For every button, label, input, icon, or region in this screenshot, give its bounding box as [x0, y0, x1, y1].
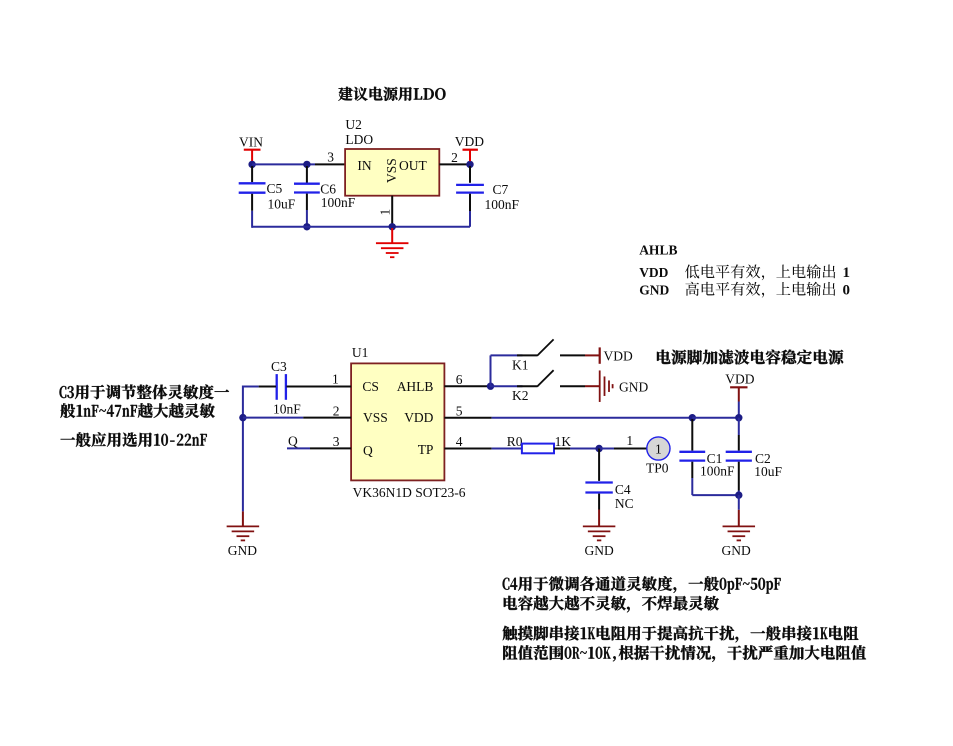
testpoint TP0 [646, 437, 670, 476]
node ground junction [389, 223, 396, 230]
wire C3 left [243, 386, 259, 388]
note VDD line [639, 264, 850, 281]
wire R0 to junction [554, 448, 599, 450]
node C6 bottom junction [303, 223, 310, 230]
svg-text:K1: K1 [512, 357, 529, 372]
pin 5 label [456, 404, 463, 419]
svg-text:VDD: VDD [639, 265, 668, 280]
svg-text:U2: U2 [345, 117, 362, 132]
node VIN junction [248, 161, 255, 168]
svg-text:AHLB: AHLB [639, 243, 677, 258]
node VSS junction [239, 414, 246, 421]
wire U2 pin2 to VDD [439, 163, 470, 165]
svg-text:5: 5 [456, 404, 463, 419]
ic U1 designator [352, 345, 369, 360]
svg-text:Q: Q [363, 443, 373, 458]
svg-text:GND: GND [228, 543, 257, 558]
power VDD right [725, 371, 754, 417]
svg-text:VDD: VDD [604, 348, 633, 363]
wire AHLB to K2 [491, 385, 523, 387]
pin 1 label U1 [332, 371, 339, 386]
node VDD junction [466, 161, 473, 168]
svg-text:GND: GND [722, 543, 751, 558]
svg-text:10uF: 10uF [268, 196, 296, 211]
note C3 usage line3 [61, 432, 207, 447]
wire VIN to U2 pin3 [252, 163, 345, 165]
ground GND C2 [722, 495, 756, 558]
svg-text:TP0: TP0 [646, 461, 669, 476]
note AHLB header [639, 243, 677, 258]
wire junction to TP0 [599, 448, 647, 450]
pin 1 label TP0 [626, 433, 633, 448]
svg-text:VSS: VSS [363, 410, 388, 425]
svg-text:10uF: 10uF [754, 464, 782, 479]
svg-text:VK36N1D SOT23-6: VK36N1D SOT23-6 [353, 485, 466, 500]
power VDD top [455, 134, 484, 161]
wire U1 pin6 AHLB [444, 385, 490, 387]
svg-text:10nF: 10nF [273, 402, 301, 417]
ground GND K2 [585, 370, 648, 402]
svg-text:2: 2 [451, 150, 458, 165]
title note 建议电源用LDO [338, 87, 445, 101]
svg-text:1: 1 [655, 441, 662, 456]
node Q label [288, 433, 298, 448]
svg-text:Q: Q [288, 433, 298, 448]
node C2 bottom junction [735, 491, 742, 498]
svg-text:3: 3 [327, 149, 334, 164]
svg-text:VDD: VDD [455, 134, 484, 149]
svg-text:CS: CS [362, 379, 379, 394]
note C3 usage line2 [60, 403, 214, 418]
ground GND C4 [583, 510, 616, 559]
wire C3 to U1 pin1 [287, 386, 352, 388]
svg-text:VDD: VDD [725, 371, 754, 386]
ground GND top [376, 228, 409, 257]
wire AHLB up to K1 [491, 355, 523, 387]
svg-text:GND: GND [639, 283, 669, 298]
svg-text:GND: GND [619, 380, 648, 395]
capacitor C5 [239, 166, 296, 228]
wire U1 pin5 VDD [444, 417, 692, 419]
pin 3 label U1 [333, 434, 340, 449]
pin 6 label [456, 372, 463, 387]
note C4 usage line1 [503, 576, 781, 593]
note power filter 电源脚 [657, 350, 843, 365]
svg-text:C3: C3 [271, 359, 287, 374]
svg-text:100nF: 100nF [321, 195, 356, 210]
svg-text:VDD: VDD [404, 410, 433, 425]
svg-text:1: 1 [332, 371, 339, 386]
svg-text:4: 4 [456, 434, 463, 449]
capacitor C3 [259, 359, 302, 416]
pin 2 label [451, 150, 458, 165]
wire U2 pin1 VSS [391, 196, 393, 227]
capacitor C6 [294, 166, 356, 227]
wire CS branch vertical [242, 386, 244, 512]
wire bottom rail LDO [252, 226, 470, 228]
svg-text:NC: NC [615, 496, 634, 511]
svg-text:100nF: 100nF [700, 463, 735, 478]
capacitor C2 [726, 418, 783, 495]
wire U1 pin3 Q [287, 447, 351, 449]
node AHLB junction [487, 383, 494, 390]
power VDD K1 [585, 347, 633, 363]
svg-text:C5: C5 [267, 181, 283, 196]
wire C1 to C2 top [692, 417, 739, 419]
ground GND left [227, 511, 260, 558]
svg-text:C7: C7 [493, 182, 509, 197]
svg-text:VIN: VIN [239, 134, 263, 149]
svg-text:100nF: 100nF [485, 197, 520, 212]
svg-text:1: 1 [378, 209, 393, 216]
svg-text:TP: TP [418, 442, 434, 457]
svg-text:AHLB: AHLB [397, 379, 434, 394]
capacitor C4 [585, 449, 633, 512]
svg-text:1K: 1K [555, 434, 572, 449]
svg-text:U1: U1 [352, 345, 369, 360]
node C2 top junction [735, 414, 742, 421]
pin 3 label [327, 149, 334, 164]
svg-text:VSS: VSS [384, 158, 399, 183]
svg-text:GND: GND [585, 543, 614, 558]
switch K2 [512, 370, 585, 403]
svg-text:2: 2 [333, 403, 340, 418]
power VIN [239, 134, 263, 161]
pin 2 label U1 [333, 403, 340, 418]
wire U1 pin4 TP [444, 448, 522, 450]
node C6 top junction [303, 161, 310, 168]
regulator U2 [345, 149, 439, 196]
capacitor C7 [456, 166, 519, 227]
note R0 usage line1 [503, 626, 859, 643]
svg-text:K2: K2 [512, 388, 529, 403]
svg-text:1: 1 [626, 433, 633, 448]
resistor R0 [507, 434, 572, 453]
svg-text:R0: R0 [507, 434, 523, 449]
note C3 usage line1 [60, 385, 230, 400]
svg-text:IN: IN [357, 158, 371, 173]
note C4 usage line2 [504, 596, 719, 613]
svg-text:1: 1 [843, 265, 851, 281]
ic U1 [351, 363, 444, 480]
svg-text:0: 0 [843, 283, 851, 299]
svg-text:LDO: LDO [345, 132, 373, 147]
pin 4 label [456, 434, 463, 449]
wire U1 pin2 VSS [243, 417, 351, 419]
svg-text:C4: C4 [615, 482, 631, 497]
node TP junction [595, 445, 602, 452]
wire C1 to C2 bottom [692, 494, 739, 496]
op-amp U2 designator [345, 117, 373, 147]
svg-text:6: 6 [456, 372, 463, 387]
pin 1 label rotated [378, 209, 393, 216]
svg-text:3: 3 [333, 434, 340, 449]
note GND line [639, 282, 850, 299]
node C1 junction [689, 414, 696, 421]
svg-text:OUT: OUT [399, 158, 427, 173]
ic U1 part number [353, 485, 466, 500]
switch K1 [512, 339, 585, 372]
note R0 usage line2 [503, 645, 866, 662]
capacitor C1 [679, 419, 735, 495]
